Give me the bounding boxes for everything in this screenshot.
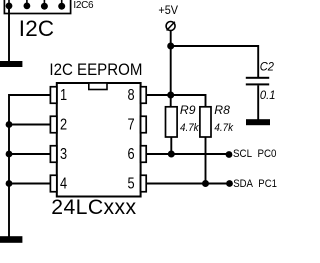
connector pin lead 4: [61, 0, 63, 10]
ground (bottom-left): [0, 236, 22, 243]
capacitor C2 top plate: [246, 77, 269, 79]
IC notch: [89, 83, 107, 90]
pin 6 box: [141, 146, 147, 163]
connector pin dot 1: [6, 3, 13, 10]
svg-text:I2C6: I2C6: [73, 0, 94, 11]
ground (C2): [246, 119, 270, 125]
svg-text:C2: C2: [260, 59, 274, 73]
pin 3 box: [50, 146, 56, 163]
pin 8 box: [141, 87, 147, 104]
wire R8 to SDA: [205, 137, 207, 184]
pin 4 box: [50, 175, 56, 192]
wire SCL net: [146, 153, 229, 155]
svg-text:R9: R9: [180, 103, 196, 117]
ground (top-left): [0, 61, 22, 67]
IC U1 body 24LCxxx: [57, 83, 141, 197]
svg-text:4.7k: 4.7k: [214, 122, 233, 134]
svg-text:I2C: I2C: [19, 16, 54, 41]
wire pin4 to bus: [9, 183, 50, 185]
resistor R8: [200, 107, 211, 137]
svg-text:3: 3: [60, 146, 67, 164]
wire SDA net: [146, 183, 229, 185]
connector pin lead 2: [26, 0, 28, 9]
wire header pin1 to ground: [8, 9, 10, 62]
junction bus-pin4: [6, 180, 13, 187]
supply symbol slash: [167, 22, 175, 31]
junction R8-SDA: [202, 180, 209, 187]
junction +5V / pin8: [167, 92, 174, 99]
wire +5V vertical to R9: [170, 31, 172, 107]
svg-text:24LCxxx: 24LCxxx: [51, 196, 136, 219]
svg-text:SDA PC1: SDA PC1: [233, 178, 277, 190]
junction R9-SCL: [168, 151, 175, 158]
svg-text:1: 1: [60, 87, 67, 105]
connector pin lead 1: [8, 0, 10, 9]
wire C2 to ground: [257, 85, 259, 119]
capacitor C2 bottom plate: [246, 83, 269, 85]
resistor R9: [166, 107, 178, 137]
connector pin dot 4: [58, 3, 65, 10]
svg-text:R8: R8: [214, 103, 230, 117]
wire pin2 to bus: [9, 124, 50, 126]
node SCL terminal dot: [226, 151, 233, 158]
wire R9 to SCL: [170, 137, 172, 154]
svg-text:5: 5: [127, 175, 134, 193]
pin 5 box: [141, 175, 147, 192]
wire pin1 to bus: [9, 94, 50, 96]
connector header box I2C: [4, 0, 70, 14]
svg-text:8: 8: [127, 87, 134, 105]
svg-text:6: 6: [127, 146, 134, 164]
connector pin lead 3: [43, 0, 45, 10]
wire pin3 to bus: [9, 153, 50, 155]
svg-text:4: 4: [60, 175, 67, 193]
junction +5V / C2 branch: [167, 43, 174, 50]
pin 2 box: [50, 116, 56, 133]
wire +5V to C2: [171, 46, 259, 78]
svg-text:SCL PC0: SCL PC0: [233, 148, 277, 160]
supply symbol +5V circle: [166, 22, 175, 31]
wire +5V rail to R8: [171, 95, 206, 107]
wire pin8 to +5V rail: [146, 94, 170, 96]
node SDA terminal dot: [226, 180, 233, 187]
connector pin dot 3: [41, 3, 48, 10]
wire left bus vertical: [8, 94, 10, 236]
svg-text:7: 7: [127, 116, 134, 134]
svg-text:0.1: 0.1: [260, 88, 276, 102]
svg-text:2: 2: [60, 116, 67, 134]
svg-text:4.7k: 4.7k: [180, 122, 199, 134]
pin 7 box: [141, 116, 147, 133]
connector pin dot 2: [24, 3, 31, 10]
junction bus-pin2: [6, 121, 13, 128]
svg-text:I2C EEPROM: I2C EEPROM: [49, 61, 142, 79]
junction bus-pin3: [6, 151, 13, 158]
pin 1 box: [50, 87, 56, 104]
svg-text:+5V: +5V: [158, 3, 178, 17]
